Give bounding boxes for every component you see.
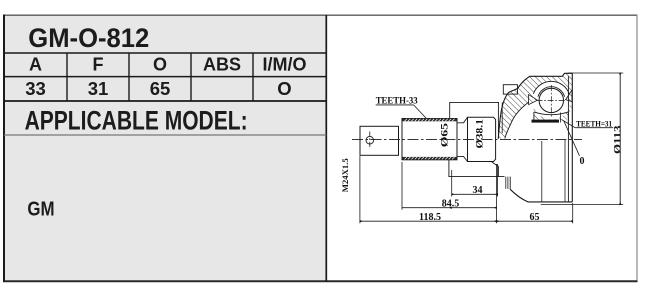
column line 1 xyxy=(66,53,68,101)
left border xyxy=(3,15,5,283)
boot seat top line xyxy=(450,102,499,118)
boot seat bottom line xyxy=(449,160,505,177)
svg-text:TEETH=31: TEETH=31 xyxy=(576,120,612,129)
bell face inner line xyxy=(567,76,569,202)
cage wedge left xyxy=(529,95,538,105)
svg-text:Ø65: Ø65 xyxy=(440,122,450,147)
TEETH-33 leader xyxy=(414,105,427,119)
spline top tooth band xyxy=(402,119,456,122)
svg-text:65: 65 xyxy=(150,78,171,99)
dimension d113 top extension xyxy=(568,72,623,74)
bell back vertical top 2 xyxy=(501,102,503,133)
column line 4 xyxy=(252,53,254,101)
dimension 34 xyxy=(451,170,453,197)
table line under applicable model row xyxy=(4,134,326,136)
land-to-bell chamfer bottom xyxy=(491,162,498,177)
spline top band ticks xyxy=(405,119,455,160)
bell face outer line xyxy=(571,73,573,202)
dimension 65 xyxy=(572,203,574,223)
top border xyxy=(3,14,638,16)
TEETH-31 leader xyxy=(562,120,576,128)
cavity inner boundary top xyxy=(505,100,532,139)
svg-text:118.5: 118.5 xyxy=(419,212,441,223)
spline bottom tooth band xyxy=(402,157,456,160)
ball crosshair horizontal xyxy=(537,99,567,101)
bell bottom outer profile xyxy=(510,189,572,202)
stub hole circle xyxy=(366,136,374,144)
cage wedge right xyxy=(566,90,572,101)
svg-text:65: 65 xyxy=(530,212,540,223)
spline section outline xyxy=(402,119,457,160)
svg-text:ABS: ABS xyxy=(203,55,241,75)
right border xyxy=(636,15,638,282)
table line under header row xyxy=(4,76,326,78)
svg-text:84.5: 84.5 xyxy=(442,199,460,210)
inner race surface under ball xyxy=(534,112,568,115)
table line under value row xyxy=(4,100,326,102)
inner race left edge xyxy=(533,112,535,123)
left panel background xyxy=(4,15,326,282)
TEETH-33 underline xyxy=(376,104,414,106)
panel divider xyxy=(325,15,327,282)
dimension d113 line xyxy=(619,73,621,205)
bell back vertical top xyxy=(497,102,499,138)
bell face inner line bottom xyxy=(564,140,566,202)
bell back bottom lines xyxy=(505,177,507,189)
svg-text:TEETH-33: TEETH-33 xyxy=(376,96,418,106)
svg-text:GM-O-812: GM-O-812 xyxy=(28,23,149,53)
ball crosshair vertical xyxy=(550,85,552,117)
svg-text:APPLICABLE MODEL:: APPLICABLE MODEL: xyxy=(25,106,248,136)
column line 2 xyxy=(128,53,130,101)
svg-text:34: 34 xyxy=(473,185,483,196)
center axis line xyxy=(352,139,582,141)
neck bottom outline xyxy=(457,156,468,161)
threaded stub M24 xyxy=(360,126,399,155)
svg-text:Ø113: Ø113 xyxy=(613,125,623,154)
dimension 118.5 xyxy=(359,156,361,223)
dimension d113 bottom extension xyxy=(541,204,624,206)
column line 3 xyxy=(190,53,192,101)
land d38.1 outline xyxy=(468,117,496,161)
ball track arc xyxy=(538,87,565,97)
svg-text:O: O xyxy=(153,55,167,75)
svg-text:0: 0 xyxy=(580,156,585,167)
svg-text:Ø38.1: Ø38.1 xyxy=(475,118,485,148)
inner race bore dark band xyxy=(532,120,560,123)
cavity ceiling arc xyxy=(533,81,569,94)
dimension 84.5 xyxy=(401,162,403,210)
TEETH-31 underline xyxy=(575,127,613,129)
svg-text:F: F xyxy=(93,55,104,75)
svg-text:GM: GM xyxy=(27,197,54,220)
bell outer profile top xyxy=(498,73,572,138)
svg-text:31: 31 xyxy=(88,78,109,99)
right panel background xyxy=(326,15,637,282)
bell hatched cross-section (top half) xyxy=(498,73,572,138)
inner race right edge xyxy=(567,112,569,123)
table line under title xyxy=(4,52,326,54)
inner race right vertical xyxy=(560,113,562,123)
bottom border xyxy=(3,280,638,282)
bell cone line bottom xyxy=(541,141,543,202)
land left edge vertical xyxy=(467,117,469,161)
neck top outline xyxy=(457,117,468,123)
svg-text:O: O xyxy=(277,78,291,99)
boot groove ring top xyxy=(503,85,517,94)
stub circle vertical centerline xyxy=(369,132,371,149)
svg-text:A: A xyxy=(29,55,42,75)
svg-text:I/M/O: I/M/O xyxy=(263,55,307,75)
ball xyxy=(539,88,563,112)
svg-text:M24X1.5: M24X1.5 xyxy=(340,158,350,192)
svg-text:33: 33 xyxy=(25,78,46,99)
zero leader xyxy=(564,121,580,156)
